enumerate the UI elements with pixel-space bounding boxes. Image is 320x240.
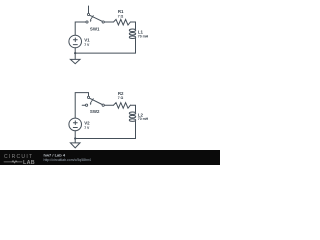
SW2 left stub wire (open) [82,104,85,106]
svg-text:7 Ω: 7 Ω [118,96,124,100]
svg-text:LAB: LAB [23,160,35,165]
wire bottom rail top circuit [75,52,135,54]
wire V1 bottom to ground [74,48,76,60]
svg-text:R1: R1 [118,9,124,14]
wire R2 to L2 [130,105,135,112]
wire bottom rail bottom circuit [75,138,135,140]
svg-text:hw7 / Lab 4: hw7 / Lab 4 [44,153,66,158]
ground bottom circuit [70,143,80,148]
svg-text:7 V: 7 V [84,126,90,130]
SW1 lever [90,15,103,21]
junction node bottom [74,137,76,139]
SW2 top terminal circle [87,96,89,98]
wire V2 bottom to ground [74,131,76,143]
resistor R1 [114,19,131,25]
wire L2 to bottom rail [135,121,137,138]
svg-text:R2: R2 [118,91,124,96]
SW1 actuator arrow [90,16,93,21]
svg-text:7 V: 7 V [84,43,90,47]
junction node top [74,52,76,54]
resistor R2 [114,103,131,109]
wire V1 top to SW1 left terminal [75,22,86,35]
voltage source V1 [69,35,82,48]
SW2 lever [90,98,103,104]
wire R1 to L1 [130,22,135,29]
svg-text:SW2: SW2 [90,109,100,114]
voltage source V2 [69,118,82,131]
svg-text:V1: V1 [84,38,90,43]
SW1 right terminal circle [102,21,104,23]
svg-text:7 Ω: 7 Ω [118,15,124,19]
svg-text:70 mH: 70 mH [138,117,149,121]
SW2 left terminal circle [86,104,88,106]
switch SW2 [82,96,104,106]
wire L1 to bottom rail [135,38,137,53]
logo wire line [4,161,22,163]
SW1 top throw stub wire [88,6,90,13]
svg-text:V2: V2 [84,121,90,126]
svg-text:70 mH: 70 mH [138,34,149,38]
SW1 left terminal circle [86,21,88,23]
wire V2 top to SW2 top terminal [75,93,88,119]
SW2 actuator arrow [90,99,93,104]
SW1 top terminal circle [87,13,89,15]
inductor L1 [129,29,135,38]
svg-text:http://circuitlab.com/c/5q58bn: http://circuitlab.com/c/5q58bn4 [44,158,92,162]
ground top circuit [70,59,80,63]
switch SW1 [86,6,104,23]
wire SW1 to R1 [104,21,113,23]
inductor L2 [129,112,135,121]
svg-text:SW1: SW1 [90,26,100,31]
SW2 right terminal circle [102,104,104,106]
wire SW2 to R2 [104,104,113,106]
